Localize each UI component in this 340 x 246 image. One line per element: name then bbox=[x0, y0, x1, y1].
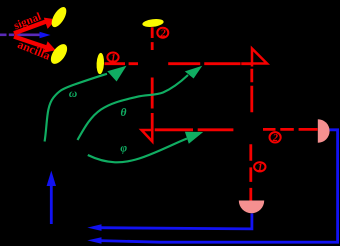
feed-forward up arrow bbox=[50, 184, 53, 224]
mirror M1 (top right triangle) bbox=[252, 49, 267, 67]
ancilla arrow bbox=[14, 37, 56, 53]
wave plate WP2 (yellow ellipse) bbox=[142, 18, 164, 28]
beam: BS1 down to mirror M2 bbox=[151, 78, 154, 131]
svg-text:2: 2 bbox=[272, 133, 279, 144]
detector D2 (right half-disk) bbox=[318, 119, 330, 143]
label circled 2 (wave plate WP2) bbox=[157, 28, 168, 40]
beam: M1 down to BS2 bbox=[250, 69, 253, 112]
wave plate WP1 (yellow ellipse) bbox=[96, 53, 105, 75]
wire arrowhead into counter (bottom) bbox=[87, 237, 101, 244]
blue input arrowhead bbox=[40, 32, 51, 38]
svg-text:θ: θ bbox=[121, 107, 127, 119]
svg-text:φ: φ bbox=[120, 142, 127, 154]
svg-text:ω: ω bbox=[69, 88, 77, 100]
svg-text:1: 1 bbox=[111, 53, 116, 64]
beam: WP1 right to BS1 bbox=[105, 62, 139, 65]
fiber coupler (ancilla input, yellow ellipse) bbox=[48, 41, 71, 66]
detector D1 (bottom half-disk) bbox=[239, 201, 264, 214]
label circled 1 (output to D1) bbox=[254, 162, 265, 173]
beam: WP2 down to BS1 bbox=[151, 27, 154, 50]
control curve omega bbox=[45, 74, 107, 142]
label circled 2 (output to D2) bbox=[270, 132, 281, 144]
wire arrowhead into counter (top) bbox=[87, 224, 101, 231]
label circled 1 (wave plate WP1) bbox=[107, 53, 118, 65]
beam: BS2 down to detector D1 bbox=[249, 144, 252, 200]
wire: D1 to counter bbox=[100, 214, 252, 229]
beam: BS2 right to detector D2 bbox=[263, 128, 318, 131]
theta arrowhead bbox=[185, 66, 203, 79]
phi arrowhead bbox=[185, 132, 203, 144]
signal arrow bbox=[14, 18, 56, 34]
svg-text:2: 2 bbox=[159, 29, 166, 40]
control curve phi bbox=[88, 139, 187, 163]
pump beam (purple dashed line, left edge) bbox=[0, 33, 41, 36]
mirror M2 (lower left triangle) bbox=[142, 130, 153, 142]
wire: D2 to counter bbox=[100, 130, 338, 242]
svg-text:1: 1 bbox=[257, 163, 262, 174]
fiber coupler (signal input, yellow ellipse) bbox=[49, 5, 70, 30]
beam: BS1 right to mirror M1 bbox=[168, 62, 252, 65]
beam: M2 right to BS2 bbox=[155, 128, 234, 131]
omega arrowhead bbox=[107, 66, 126, 82]
control curve theta bbox=[78, 75, 189, 140]
